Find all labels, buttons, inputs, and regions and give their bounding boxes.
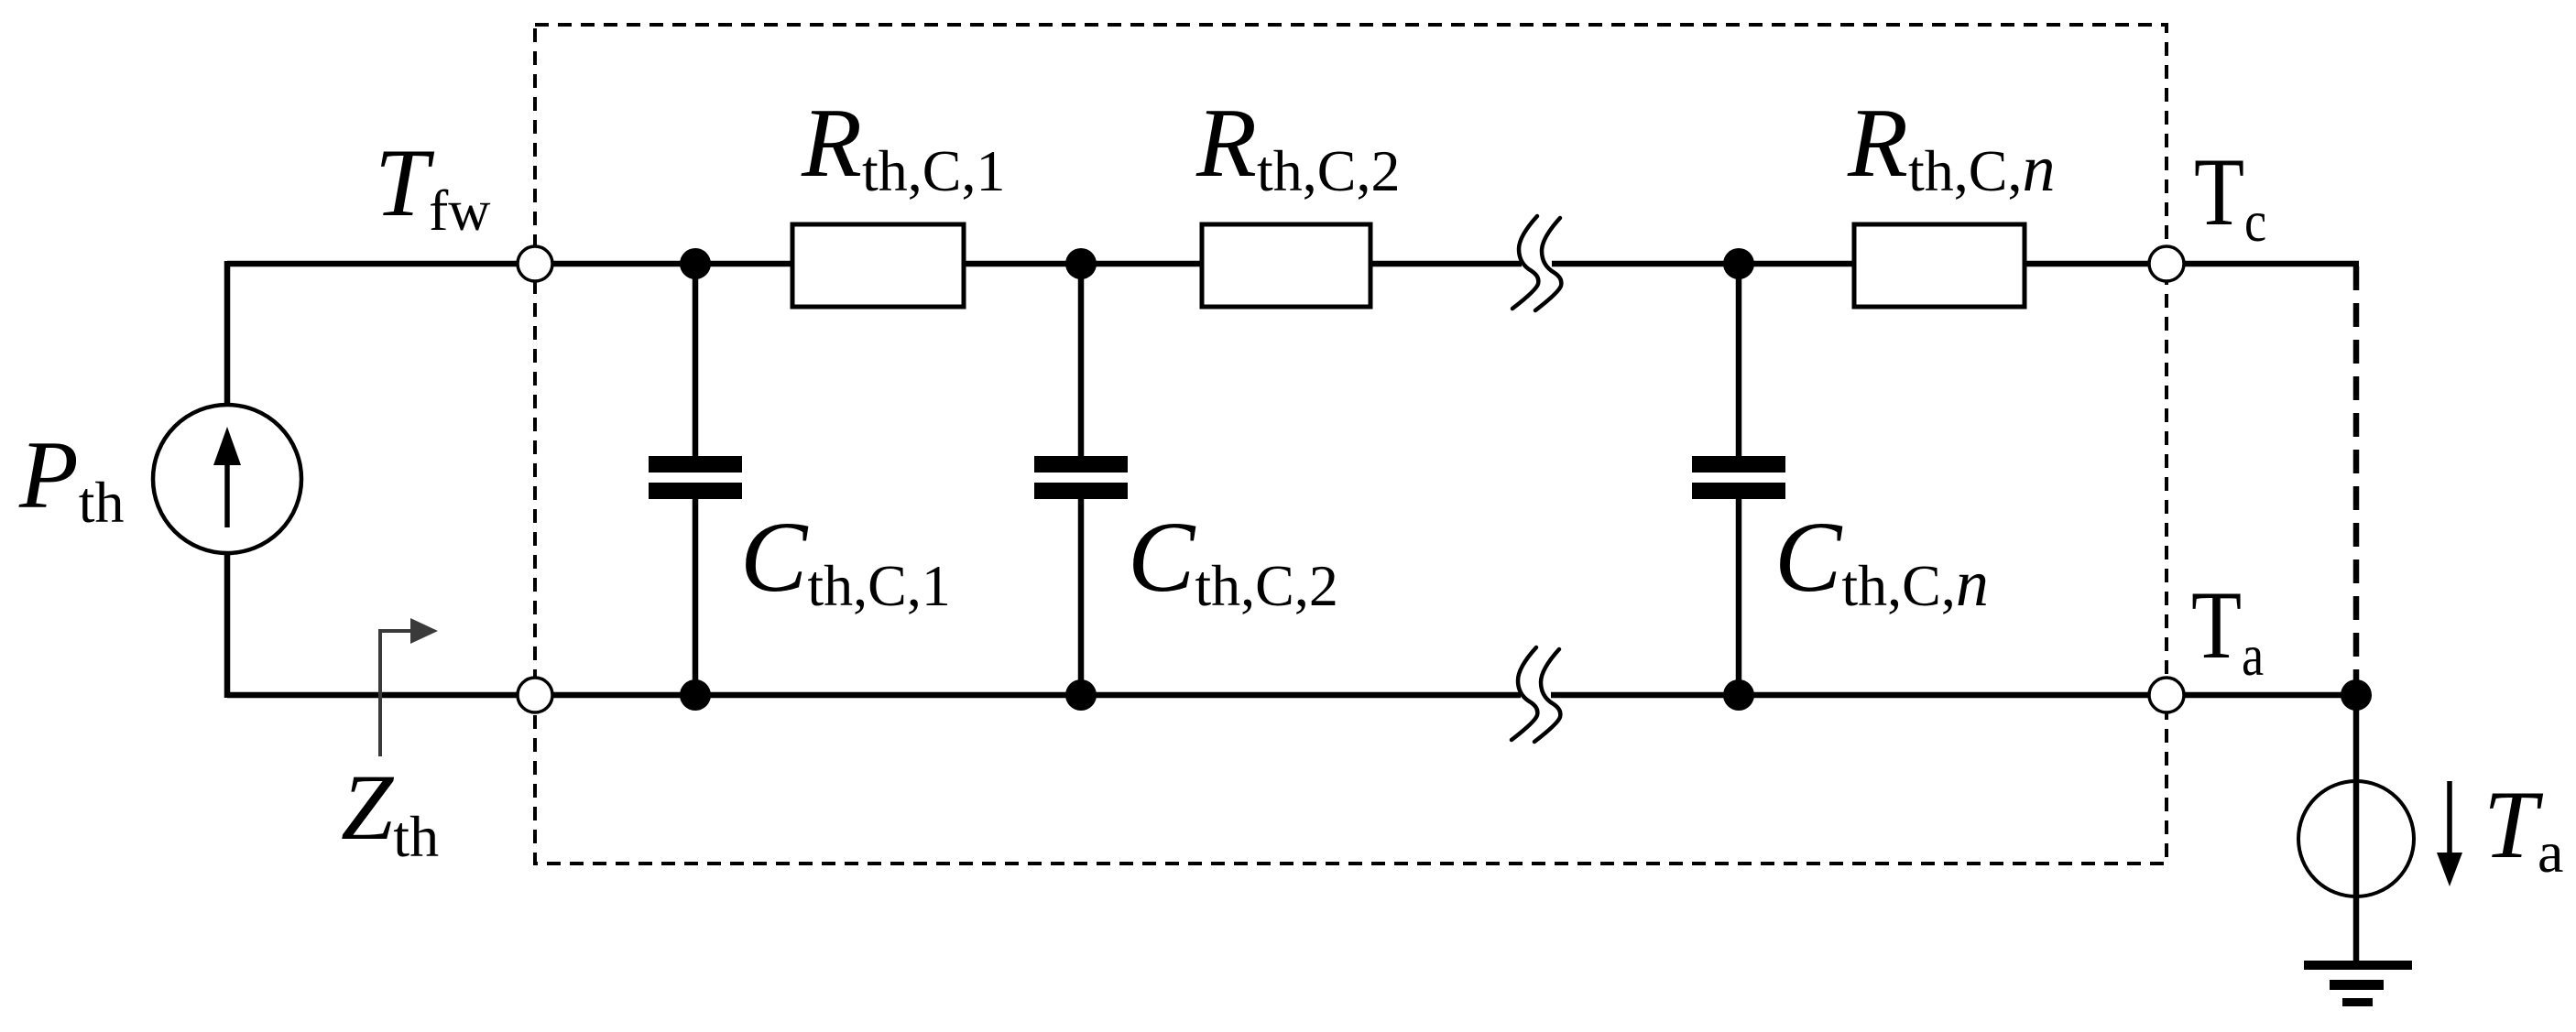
resistor R_th,C,2 [1202, 224, 1370, 307]
wire left branch lower [224, 551, 231, 698]
svg-text:Pth: Pth [18, 421, 125, 535]
wire cap1 upper [693, 264, 699, 458]
wire cap-n upper [1736, 264, 1742, 458]
wire bottom-right horizontal [1551, 692, 2356, 699]
T_a down arrow [2447, 781, 2452, 857]
node T_c open circle [2149, 246, 2184, 281]
break symbol bottom wire [1512, 647, 1537, 740]
dashed box (Cauer network boundary) [535, 25, 2167, 864]
junction dot bottom 1 [680, 679, 711, 711]
wire bottom-left horizontal [227, 692, 1521, 699]
junction dot right corner [2341, 679, 2372, 711]
junction dot top 1 [680, 248, 711, 279]
svg-text:Ta: Ta [2191, 571, 2264, 688]
svg-text:Rth,C,n: Rth,C,n [1847, 89, 2055, 205]
wire cap2 lower [1078, 496, 1085, 695]
svg-text:Cth,C,1: Cth,C,1 [740, 501, 951, 618]
wire cap2 upper [1078, 264, 1085, 458]
capacitor C_th,C,2 [1034, 456, 1128, 473]
svg-text:Cth,C,n: Cth,C,n [1774, 501, 1989, 620]
resistor R_th,C,1 [792, 224, 964, 307]
wire top-right horizontal [1552, 261, 2359, 267]
wire cap1 lower [693, 496, 699, 695]
capacitor C_th,C,n [1692, 456, 1785, 473]
svg-text:Tc: Tc [2194, 138, 2266, 254]
node T_fw open circle [518, 246, 552, 281]
junction dot top n [1723, 248, 1754, 279]
svg-text:Tfw: Tfw [375, 129, 490, 243]
svg-text:Rth,C,1: Rth,C,1 [801, 89, 1005, 203]
dashed drop wire right (Tc corner down to Ta node) [2353, 266, 2360, 692]
break symbol top wire [1512, 216, 1538, 309]
current source P_th [153, 405, 301, 553]
svg-text:Cth,C,2: Cth,C,2 [1128, 501, 1338, 618]
junction dot bottom 2 [1065, 679, 1097, 711]
wire left branch upper [224, 261, 231, 407]
Z_th measuring arrow [380, 631, 412, 756]
node T_a open circle [2149, 678, 2184, 712]
ground [2304, 961, 2412, 970]
svg-text:Ta: Ta [2483, 771, 2563, 885]
resistor R_th,C,n [1854, 224, 2025, 307]
wire cap-n lower [1736, 496, 1742, 695]
wire top-left horizontal [227, 261, 1522, 267]
junction dot top 2 [1065, 248, 1097, 279]
junction dot bottom n [1723, 679, 1754, 711]
node bottom-left open circle [518, 678, 552, 712]
voltage source T_a wire [2353, 695, 2360, 963]
voltage source T_a circle [2298, 781, 2414, 896]
capacitor C_th,C,1 [649, 456, 742, 473]
svg-text:Zth: Zth [341, 755, 439, 869]
svg-text:Rth,C,2: Rth,C,2 [1195, 89, 1400, 203]
